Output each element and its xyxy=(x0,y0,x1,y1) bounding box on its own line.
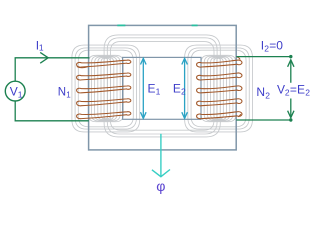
svg-text:1: 1 xyxy=(18,90,23,100)
svg-text:=0: =0 xyxy=(269,38,283,52)
svg-text:1: 1 xyxy=(39,43,44,53)
svg-text:E: E xyxy=(297,82,305,96)
svg-text:φ: φ xyxy=(156,179,165,195)
svg-text:2: 2 xyxy=(305,88,310,98)
svg-text:N: N xyxy=(58,87,66,99)
svg-text:E: E xyxy=(148,81,156,95)
svg-text:1: 1 xyxy=(66,91,71,100)
svg-text:E: E xyxy=(173,81,181,95)
svg-text:V: V xyxy=(277,82,285,96)
svg-text:V: V xyxy=(10,84,18,98)
svg-text:2: 2 xyxy=(181,87,186,97)
svg-text:1: 1 xyxy=(156,87,161,97)
svg-text:N: N xyxy=(256,85,265,99)
svg-text:2: 2 xyxy=(265,90,270,100)
svg-text:=: = xyxy=(290,82,297,96)
